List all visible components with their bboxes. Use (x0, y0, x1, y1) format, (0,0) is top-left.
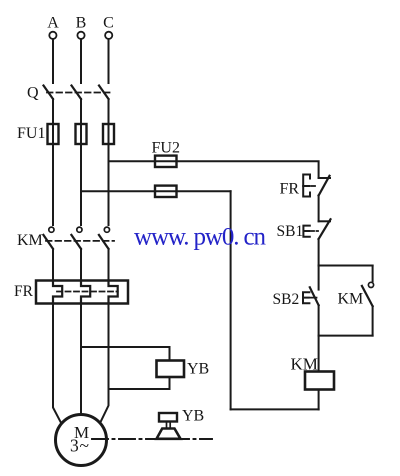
fuse FU1 element 3 (103, 124, 114, 144)
terminal C (105, 32, 112, 39)
relay FR NC contact seat (319, 177, 330, 179)
svg-text:FU1: FU1 (17, 125, 45, 142)
svg-text:~: ~ (80, 436, 89, 456)
overload relay FR heater element 3 (109, 281, 118, 304)
fuse FU2 element 2 (155, 186, 177, 197)
contactor KM aux fixed circle (368, 282, 373, 287)
svg-text:A: A (47, 15, 59, 32)
svg-text:FR: FR (280, 181, 300, 198)
wire SB2 to KM coil (318, 305, 320, 371)
wire C terminal to Q (108, 39, 110, 83)
wire SB1 to branch node (318, 239, 320, 266)
wire branch bottom (319, 335, 373, 337)
svg-text:Q: Q (27, 85, 39, 102)
fuse FU1 element 2 (76, 124, 87, 144)
wire KM coil to bottom return (318, 390, 320, 410)
wire brake YB1 return to phase C (109, 377, 170, 389)
motor shaft centre line (dash-dot) (92, 438, 212, 440)
pushbutton SB1 link (dashed) (311, 230, 319, 232)
pushbutton SB2 NO blade (310, 287, 319, 305)
svg-text:C: C (103, 15, 114, 32)
wire FR contact to SB1 (318, 196, 320, 222)
wire KM1 to FR box (52, 249, 54, 281)
wire KM aux branch top (372, 266, 374, 282)
switch Q mechanical link (dashed) (47, 92, 113, 94)
relay FR NC contact blade (319, 176, 330, 196)
pushbutton SB2 link (dashed) (310, 297, 317, 299)
brake coil YB1 box (157, 361, 185, 378)
wire FR to motor phase B (80, 304, 82, 416)
wire KM aux to branch bottom (372, 306, 374, 335)
overload relay FR heater element 2 (81, 281, 90, 304)
svg-text:SB2: SB2 (273, 291, 300, 308)
wire KM2 to FR box (80, 249, 82, 281)
wire B terminal to Q (80, 39, 82, 83)
wire through FU1 phase A (52, 124, 54, 225)
svg-text:KM: KM (338, 291, 364, 308)
svg-text:FR: FR (14, 283, 34, 300)
fuse FU1 element 1 (48, 124, 59, 144)
terminal B (77, 32, 84, 39)
svg-text:B: B (76, 15, 87, 32)
wire Q pole2 to FU1 (80, 99, 82, 124)
wire Q pole1 to FU1 (52, 99, 54, 124)
pushbutton SB2 actuator E (303, 292, 309, 303)
brake YB2 coil box (159, 413, 177, 422)
wire FR to motor phase C (101, 304, 109, 422)
svg-text:YB: YB (187, 361, 209, 378)
wire return vertical to FU2 lower (230, 191, 232, 409)
wire A terminal to Q (52, 39, 54, 83)
wire tap from phase B to FU2 lower (81, 190, 231, 192)
switch Q pole 1 blade (44, 86, 54, 100)
relay FR trip link (dashed) (311, 185, 318, 187)
contactor KM coil (305, 372, 334, 390)
overload relay FR trip link (dashed) (57, 291, 118, 293)
contactor KM main contact 3 fixed circle (104, 227, 109, 232)
switch Q pole 2 blade (72, 86, 82, 100)
svg-text:SB1: SB1 (277, 223, 304, 240)
brake YB2 stem left (166, 422, 168, 429)
contactor KM aux blade (362, 286, 373, 306)
wire KM3 to FR box (108, 249, 110, 281)
svg-text:FU2: FU2 (152, 140, 180, 157)
contactor KM main contact 1 blade (43, 235, 53, 249)
terminal A (49, 32, 56, 39)
switch Q pole 3 blade (99, 86, 109, 100)
pushbutton SB1 actuator E (303, 226, 309, 237)
contactor KM main contact 3 blade (99, 235, 109, 249)
overload relay FR heater element 1 (53, 281, 62, 304)
contactor KM mechanical link (dashed) (46, 240, 114, 242)
contactor KM main contact 2 fixed circle (77, 227, 82, 232)
svg-text:YB: YB (182, 408, 204, 425)
wire Q pole3 to FU1 (108, 99, 110, 124)
wire branch node to SB2 (318, 266, 320, 290)
brake YB2 stem right (169, 422, 171, 429)
wire bottom return horizontal (231, 408, 319, 410)
pushbutton SB1 NC blade (319, 219, 331, 239)
svg-text:www. pw0. cn: www. pw0. cn (134, 224, 267, 251)
relay FR trip actuator bracket (303, 175, 310, 197)
contactor KM main contact 1 fixed circle (49, 227, 54, 232)
svg-text:KM: KM (17, 232, 43, 249)
pushbutton SB1 NC seat (319, 220, 330, 222)
wire phase B tap to brake YB1 (81, 347, 170, 361)
contactor KM main contact 2 blade (71, 235, 81, 249)
wire tap from phase C to FU2 upper (109, 161, 319, 178)
overload relay FR body box (36, 281, 128, 304)
wire branch top to KM aux (319, 265, 373, 267)
motor M circle (56, 415, 107, 466)
wire through FU1 phase B (80, 124, 82, 225)
wire through FU1 phase C (108, 124, 110, 225)
fuse FU2 element 1 (155, 156, 177, 167)
wire FR to motor phase A (53, 304, 61, 422)
svg-text:3: 3 (70, 436, 79, 456)
relay FR trip actuator middle arm (303, 185, 309, 187)
brake YB2 shoe (trapezoid) (157, 429, 181, 439)
